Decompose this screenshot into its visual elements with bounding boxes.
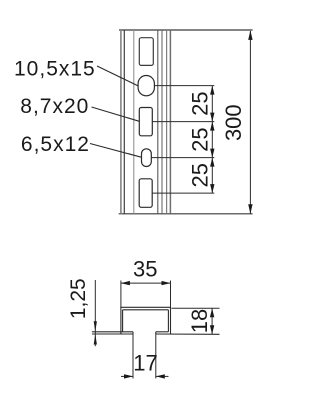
arrow up 300 — [248, 30, 252, 40]
ext 35 right — [170, 281, 172, 308]
slot 8.7x20 middle — [139, 108, 152, 136]
arrow down 300 — [248, 204, 252, 214]
section crown top inner — [123, 309, 169, 311]
svg-text:35: 35 — [133, 256, 157, 281]
hole 10.5x15 oval — [138, 76, 154, 96]
section: dimension 35 — [121, 282, 171, 284]
extension line slot3 center — [152, 192, 214, 194]
rail right fold line 2 — [161, 30, 163, 214]
left lip end edge — [132, 332, 134, 334]
svg-text:8,7x20: 8,7x20 — [20, 95, 89, 118]
arrows at 121.6 — [210, 113, 214, 131]
rail left brim edge line — [120, 30, 122, 214]
rail front view top edge — [119, 29, 253, 31]
rail right fold line 1 — [157, 30, 159, 214]
slot 8.7x20 bottom — [139, 179, 152, 208]
section crown top outer — [120, 306, 171, 308]
dimension 17 right segment — [156, 375, 169, 377]
ext 35 left / crown wall extension — [120, 281, 122, 308]
rail left fold line 2 — [133, 30, 135, 214]
extension line hole1 center — [154, 85, 214, 87]
wedge arrow down to lip top — [94, 321, 97, 332]
wedge arrow up to lip bottom — [94, 334, 97, 345]
right lip bottom line + 18 extension — [156, 333, 220, 335]
right lip end edge — [155, 332, 157, 334]
arrow down at 193.1 — [210, 184, 214, 193]
extension 17 right — [155, 334, 157, 379]
leader line 6,5x12 — [90, 144, 142, 158]
rail front view bottom edge — [119, 213, 253, 215]
hole 6.5x12 oval — [142, 149, 152, 167]
svg-text:1,25: 1,25 — [67, 278, 90, 319]
section right wall inner — [167, 310, 169, 332]
section right wall outer — [170, 307, 172, 334]
dimension line 25 chain — [211, 86, 213, 194]
leader line 8,7x20 — [92, 107, 140, 121]
svg-text:18: 18 — [187, 309, 212, 333]
left lip bottom line + 1,25 extension — [92, 333, 133, 335]
svg-text:6,5x12: 6,5x12 — [21, 133, 90, 156]
arrow up 18 — [210, 308, 214, 317]
section left wall outer — [120, 307, 122, 334]
arrow down 18 — [210, 325, 214, 334]
rail right brim edge line — [169, 30, 171, 214]
svg-text:25: 25 — [188, 91, 213, 115]
leader line 10,5x15 — [97, 66, 138, 86]
dimension line 300 — [249, 31, 251, 214]
rail right fold line 3 — [166, 30, 168, 214]
extension 17 left — [132, 334, 134, 379]
svg-text:17: 17 — [133, 351, 157, 376]
right lip top line — [156, 331, 169, 333]
slot 8.7x20 top — [139, 38, 153, 66]
arrows at 157.6 — [210, 149, 214, 167]
dimension 1,25 line — [94, 280, 96, 346]
svg-text:25: 25 — [188, 163, 213, 187]
svg-text:10,5x15: 10,5x15 — [14, 58, 96, 81]
arrow up at 85.6 — [210, 86, 214, 95]
extension line slot2 center — [152, 121, 214, 123]
rail left fold line 1 — [123, 30, 125, 214]
dimension 18 line — [211, 308, 213, 334]
dimension 18 top extension — [172, 307, 220, 309]
extension line oval center — [151, 157, 214, 159]
svg-text:300: 300 — [221, 104, 246, 141]
dimension 17 left segment — [121, 375, 133, 377]
arrow left 35 — [121, 281, 130, 285]
arrow right 35 — [162, 281, 171, 285]
left lip top line + 1,25 extension — [92, 331, 133, 333]
svg-text:25: 25 — [188, 127, 213, 151]
arrow left to 155.8 — [156, 374, 165, 378]
section left wall inner — [122, 310, 124, 332]
arrow right to 133 — [124, 374, 133, 378]
